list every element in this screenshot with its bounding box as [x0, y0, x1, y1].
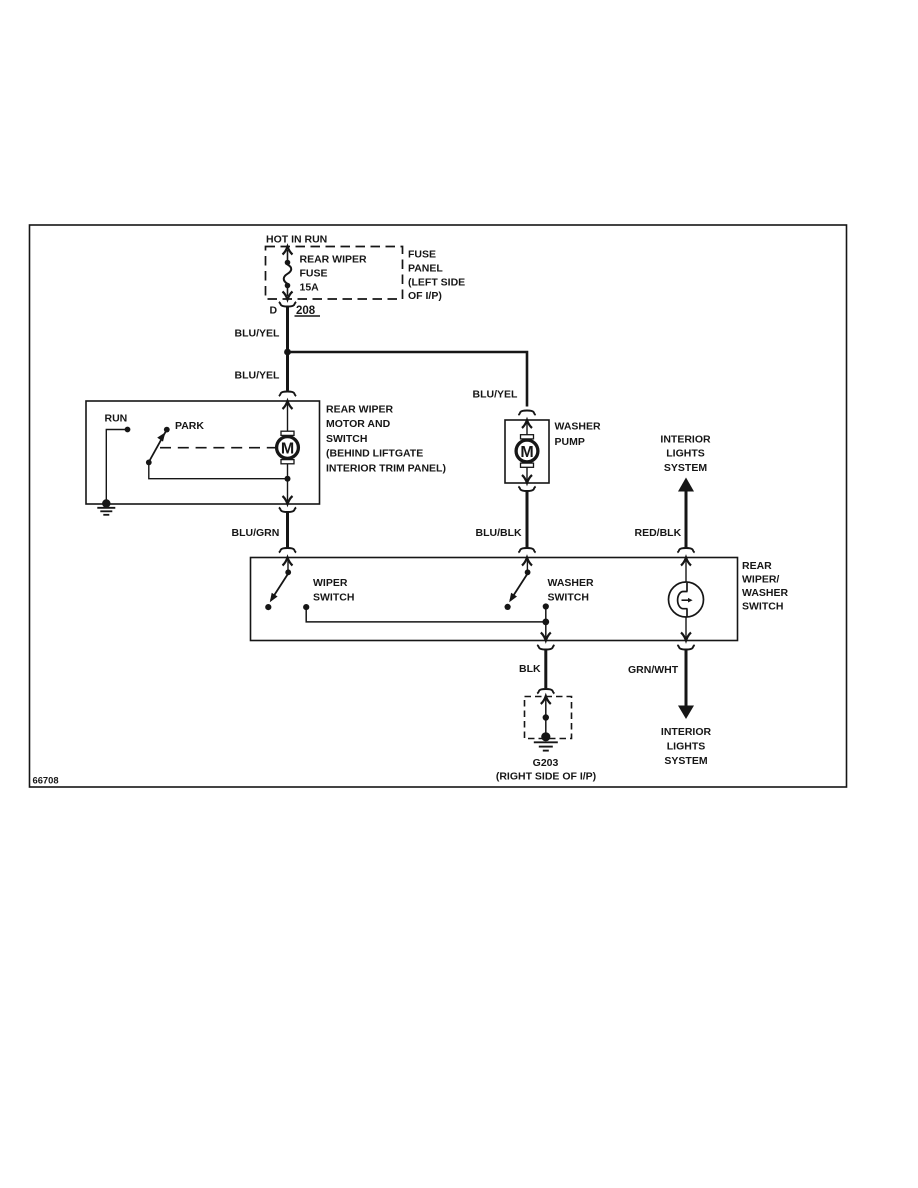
svg-text:REAR WIPER: REAR WIPER [300, 254, 368, 266]
svg-text:WASHER: WASHER [555, 420, 602, 432]
arrow down at switch box bottom left [541, 633, 551, 641]
svg-text:FUSE: FUSE [300, 268, 328, 280]
svg-text:208: 208 [296, 305, 316, 317]
arrow down at fuse box bottom [283, 292, 293, 300]
svg-text:BLU/YEL: BLU/YEL [235, 328, 281, 340]
rear wiper/washer switch box [251, 558, 738, 641]
svg-text:FUSE: FUSE [408, 249, 436, 261]
arrow up at motor box top [283, 401, 293, 409]
wire BLU/BLK [526, 491, 529, 548]
illumination lamp [669, 582, 704, 617]
svg-text:SWITCH: SWITCH [326, 433, 367, 445]
motor M1 rear wiper motor [277, 431, 299, 464]
svg-text:66708: 66708 [33, 775, 59, 786]
connector half above motor box [279, 392, 296, 397]
connector half below switch box right [677, 645, 694, 650]
svg-text:(RIGHT SIDE OF I/P): (RIGHT SIDE OF I/P) [496, 771, 596, 783]
svg-text:WIPER/: WIPER/ [742, 574, 779, 586]
svg-text:PUMP: PUMP [555, 436, 585, 448]
svg-text:PANEL: PANEL [408, 263, 443, 275]
wire park blade to motor line [149, 463, 288, 479]
arrow up at fuse box top [283, 247, 293, 255]
junction dot below motor [285, 476, 291, 482]
motor M2 washer pump motor [516, 435, 538, 468]
wire washer output down [545, 607, 547, 638]
ground G motor [97, 499, 115, 515]
washer pump box [505, 420, 549, 483]
wire pump to box bottom [526, 467, 528, 480]
svg-text:RED/BLK: RED/BLK [635, 527, 682, 539]
fuse terminal dot bottom [285, 283, 291, 289]
wiper switch output dot [303, 604, 309, 610]
svg-text:BLU/YEL: BLU/YEL [235, 370, 281, 382]
splice dot in G203 [543, 714, 549, 720]
svg-text:SYSTEM: SYSTEM [664, 755, 707, 767]
connector half above washer pump box [518, 411, 535, 416]
arrow down at motor box bottom [283, 496, 293, 504]
arrow up at pump box top [522, 420, 532, 428]
svg-text:RUN: RUN [105, 412, 128, 424]
run contact dot [125, 427, 131, 433]
G203 dashed box [525, 697, 572, 739]
svg-text:PARK: PARK [175, 420, 204, 432]
wire to lamp [685, 561, 687, 583]
connector half below motor box [279, 507, 296, 512]
wire BLK [544, 650, 547, 689]
wire to wiper switch pivot [287, 561, 289, 571]
wire branch to washer pump [288, 352, 528, 407]
svg-text:INTERIOR: INTERIOR [661, 726, 712, 738]
svg-text:OF I/P): OF I/P) [408, 290, 442, 302]
svg-text:WIPER: WIPER [313, 577, 348, 589]
svg-text:(BEHIND LIFTGATE: (BEHIND LIFTGATE [326, 448, 423, 460]
junction dot in switch box [542, 619, 549, 626]
wire to washer switch pivot [526, 561, 528, 571]
connector half below fuse box [279, 302, 296, 307]
svg-text:SWITCH: SWITCH [548, 591, 589, 603]
wire motor to box bottom [287, 464, 289, 501]
svg-text:M: M [281, 440, 294, 457]
connector half above G203 box [537, 689, 554, 694]
arrow down at pump box bottom [522, 475, 532, 483]
svg-text:REAR WIPER: REAR WIPER [326, 404, 394, 416]
wire to ground [545, 699, 547, 736]
svg-text:SYSTEM: SYSTEM [664, 462, 707, 474]
wire GRN/WHT [685, 650, 688, 708]
arrow up washer switch feed [522, 558, 532, 566]
arrow up at G203 box top [541, 696, 551, 704]
ground G203 symbol [534, 732, 558, 750]
connector half below pump box [518, 486, 535, 491]
rear wiper motor box [86, 401, 320, 504]
arrow to interior lights system bottom [678, 706, 694, 720]
svg-text:WASHER: WASHER [742, 587, 789, 599]
svg-text:HOT IN RUN: HOT IN RUN [266, 234, 327, 246]
fuse terminal dot top [285, 260, 291, 266]
svg-text:BLU/YEL: BLU/YEL [473, 388, 519, 400]
arrow up wiper switch feed [283, 558, 293, 566]
wire lamp to box bottom [685, 617, 687, 638]
wire into pump [526, 423, 528, 438]
svg-text:INTERIOR: INTERIOR [660, 433, 711, 445]
arrow down at switch box bottom right [681, 633, 691, 641]
fuse element squiggle [284, 265, 292, 284]
wiper switch SW1 [265, 569, 291, 610]
svg-text:LIGHTS: LIGHTS [667, 741, 706, 753]
wire fuse to box edge [287, 286, 289, 296]
svg-text:SWITCH: SWITCH [742, 601, 783, 613]
svg-text:REAR: REAR [742, 560, 772, 572]
svg-text:BLU/GRN: BLU/GRN [232, 527, 280, 539]
svg-text:BLU/BLK: BLU/BLK [476, 527, 522, 539]
wire RED/BLK [685, 491, 688, 548]
washer switch output dot [543, 603, 549, 609]
svg-text:G203: G203 [533, 757, 559, 769]
svg-text:(LEFT SIDE: (LEFT SIDE [408, 276, 465, 288]
dashed mechanical link [160, 447, 275, 449]
fuse panel dashed box [266, 247, 403, 300]
svg-text:MOTOR AND: MOTOR AND [326, 418, 391, 430]
splice junction dot [284, 349, 291, 356]
svg-text:D: D [270, 305, 278, 317]
wire BLU/GRN [286, 512, 289, 548]
arrow to interior lights system top [678, 478, 694, 492]
connector half above switch box right [677, 548, 694, 553]
wire fuse feed [287, 250, 289, 262]
svg-text:SWITCH: SWITCH [313, 591, 354, 603]
washer switch SW2 [505, 569, 531, 610]
wire wiper output to washer junction [306, 607, 546, 622]
svg-text:M: M [520, 444, 533, 461]
connector half above switch box middle [518, 548, 535, 553]
arrow up illumination lamp feed [681, 558, 691, 566]
svg-text:WASHER: WASHER [548, 577, 595, 589]
park switch blade [146, 431, 166, 466]
svg-text:GRN/WHT: GRN/WHT [628, 664, 679, 676]
park contact dot [164, 427, 170, 433]
svg-text:BLK: BLK [519, 663, 541, 675]
connector half below switch box left [537, 645, 554, 650]
wire run to ground [106, 430, 127, 504]
svg-text:LIGHTS: LIGHTS [666, 448, 705, 460]
wire BLU/YEL main vertical [286, 307, 289, 391]
svg-text:INTERIOR TRIM PANEL): INTERIOR TRIM PANEL) [326, 462, 446, 474]
connector half above switch box left [279, 548, 296, 553]
wire into motor [287, 404, 289, 434]
svg-text:15A: 15A [300, 281, 320, 293]
